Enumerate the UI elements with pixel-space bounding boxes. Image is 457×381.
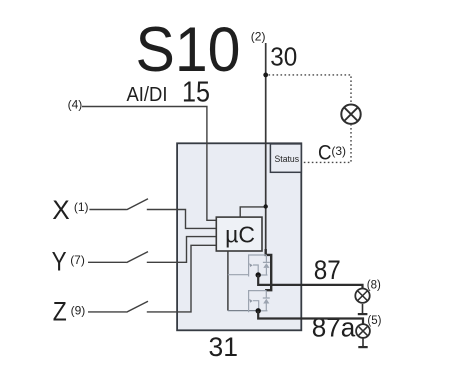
wire Y input xyxy=(88,261,127,263)
svg-text:AI/DI: AI/DI xyxy=(127,84,168,106)
wire gate branch M2 xyxy=(228,310,256,312)
svg-text:(2): (2) xyxy=(251,29,266,43)
dotted lamp to status xyxy=(302,124,351,162)
uC box xyxy=(216,217,262,251)
wire uC supply tap xyxy=(240,207,266,217)
wire Y to uC xyxy=(147,237,217,263)
switch blade Z xyxy=(127,301,149,312)
node junction on 30 line xyxy=(263,73,268,78)
wire X input xyxy=(89,209,126,211)
wire gate branch M1 xyxy=(228,274,249,276)
wire X to uC xyxy=(147,210,217,229)
supply line 30 xyxy=(265,43,267,250)
lamp C xyxy=(341,105,360,124)
svg-text:(4): (4) xyxy=(68,98,83,112)
svg-text:87a: 87a xyxy=(312,312,356,342)
svg-text:(8): (8) xyxy=(367,280,381,292)
svg-text:S10: S10 xyxy=(136,15,241,85)
svg-text:(9): (9) xyxy=(71,303,86,317)
node junction uC supply xyxy=(264,204,268,208)
MOSFET Q1 xyxy=(249,255,270,277)
svg-text:Y: Y xyxy=(52,247,67,277)
svg-text:(5): (5) xyxy=(367,315,381,327)
svg-text:(7): (7) xyxy=(70,253,85,267)
node junction Q2 source xyxy=(256,308,261,313)
svg-text:Status: Status xyxy=(275,154,300,165)
svg-text:31: 31 xyxy=(209,332,239,362)
svg-text:15: 15 xyxy=(182,77,210,109)
MOSFET Q2 xyxy=(249,291,270,313)
svg-text:30: 30 xyxy=(270,44,297,72)
dotted status lamp feed xyxy=(269,75,352,105)
wire uC gate bus xyxy=(227,251,229,311)
module body S10 xyxy=(177,143,301,330)
wire output 87a xyxy=(258,311,363,324)
svg-text:Z: Z xyxy=(53,296,67,326)
ground below lamp 8 xyxy=(362,304,364,313)
ground below lamp 5 xyxy=(362,338,364,346)
switch blade X xyxy=(127,199,149,210)
wire terminal 15 / AI-DI feed xyxy=(82,107,216,221)
svg-text:µC: µC xyxy=(225,222,255,248)
switch blade Y xyxy=(127,252,149,263)
wire Z input xyxy=(88,311,127,313)
svg-text:(3): (3) xyxy=(331,144,346,158)
svg-text:87: 87 xyxy=(314,255,341,285)
lamp (5) xyxy=(356,324,370,338)
node junction Q1 source xyxy=(256,272,261,277)
wire output 87 xyxy=(258,275,362,289)
svg-text:X: X xyxy=(52,195,70,225)
lamp (8) xyxy=(355,289,369,303)
svg-text:(1): (1) xyxy=(74,200,89,214)
wire Z to uC xyxy=(147,245,217,312)
status box xyxy=(270,144,301,172)
svg-text:C: C xyxy=(318,141,332,165)
